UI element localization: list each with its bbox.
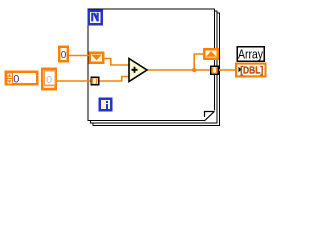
svg-text:0: 0	[13, 73, 19, 85]
svg-text:Array: Array	[238, 47, 264, 61]
svg-text:[DBL]: [DBL]	[240, 65, 263, 77]
svg-text:0: 0	[61, 50, 67, 61]
svg-text:0: 0	[46, 74, 52, 86]
